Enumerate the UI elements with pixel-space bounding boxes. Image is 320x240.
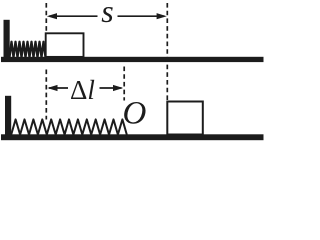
bottom ground line (1, 134, 264, 140)
arrowhead left of s arrow (47, 13, 57, 19)
svg-text:O: O (123, 96, 147, 132)
dashed guide line left (x=46) bottom scene (45, 70, 47, 120)
svg-text:Δl: Δl (70, 75, 95, 105)
arrowhead left of Δl arrow (47, 85, 57, 91)
compressed spring (top) (10, 42, 46, 57)
arrowhead right of s arrow (157, 13, 167, 19)
relaxed spring (bottom) (11, 119, 127, 134)
distance arrow s (double headed) (49, 15, 165, 17)
dashed guide line right (x=167) spans both scenes (166, 3, 168, 101)
top wall (4, 20, 10, 60)
arrowhead right of Δl arrow (113, 85, 123, 91)
block (top scene) (46, 33, 84, 57)
top ground line (1, 57, 264, 62)
bottom wall (5, 96, 11, 138)
dashed guide line left (x=46) top scene (45, 3, 47, 34)
dashed guide line at natural length point O (x=124) (123, 67, 125, 101)
svg-text:s: s (101, 0, 113, 29)
block (bottom scene) (167, 102, 203, 135)
Δl arrows (outward double heads) (49, 87, 122, 89)
